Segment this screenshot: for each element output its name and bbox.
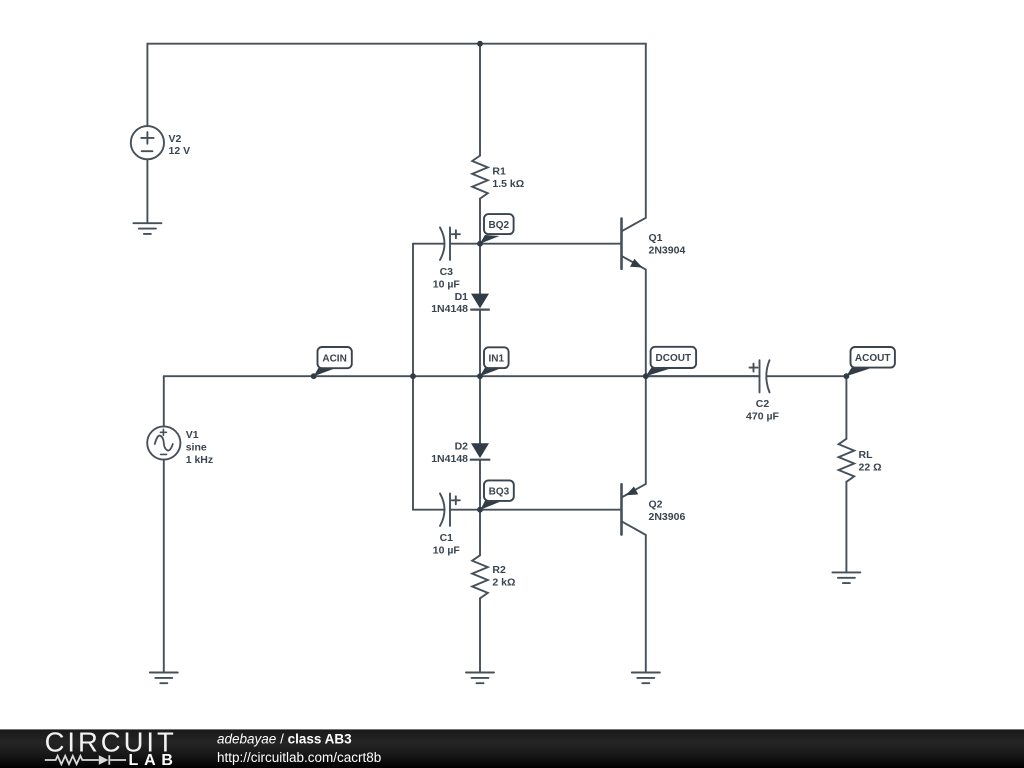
wire D2 cathode to BQ3 (479, 460, 481, 510)
resistor R2 (472, 555, 488, 598)
wire C3 left lead (413, 243, 444, 245)
svg-text:ACIN: ACIN (322, 353, 346, 364)
Q2 collector (622, 521, 646, 672)
node BQ3 (480, 501, 500, 510)
capacitor C1 (440, 494, 450, 526)
junction dot ACIN (311, 373, 317, 379)
wire R2 to ground (479, 598, 481, 672)
diode D2 (471, 443, 489, 458)
wire V2 to rail (146, 44, 148, 127)
resistor R1 (472, 156, 488, 199)
svg-text:2 kΩ: 2 kΩ (492, 576, 515, 588)
ground R2 (466, 673, 494, 684)
V1 minus (161, 453, 167, 455)
svg-text:IN1: IN1 (489, 353, 505, 364)
source V1 circle (147, 426, 180, 459)
svg-text:1N4148: 1N4148 (431, 303, 468, 315)
V1 sine wave (155, 436, 173, 451)
wire D1 cathode to IN1 (479, 310, 481, 377)
C3 plus sign (452, 230, 460, 238)
V2 plus (141, 132, 153, 144)
wire D2 anode (479, 376, 481, 443)
svg-text:D1: D1 (455, 291, 469, 303)
wire Q1 base (480, 243, 622, 245)
junction dot BQ3 (477, 507, 483, 513)
D2 cathode bar (470, 459, 491, 461)
svg-text:2N3904: 2N3904 (649, 244, 686, 256)
svg-text:22 Ω: 22 Ω (859, 461, 882, 473)
wire top rail (147, 43, 645, 45)
logo diode triangle (99, 755, 109, 765)
node IN1 (480, 368, 500, 377)
svg-text:Q2: Q2 (649, 499, 663, 511)
transistor Q1 bar (620, 219, 623, 269)
svg-text:C3: C3 (440, 266, 454, 278)
junction dot bus row (410, 373, 416, 379)
svg-text:BQ2: BQ2 (489, 220, 510, 231)
D1 cathode bar (470, 309, 490, 311)
wire RL top lead (845, 376, 847, 439)
svg-text:ACOUT: ACOUT (855, 353, 891, 364)
V1 plus (160, 429, 166, 435)
junction dot BQ2 (477, 241, 483, 247)
node ACOUT (846, 367, 869, 376)
svg-text:V2: V2 (169, 133, 182, 145)
Q1 emitter arrow (630, 259, 643, 268)
transistor Q2 bar (620, 484, 623, 534)
wire C2 left lead (646, 375, 760, 377)
wire main row left segment (164, 375, 760, 377)
source V2 circle (131, 126, 164, 159)
junction dot DCOUT (643, 373, 649, 379)
wire D1 anode (479, 244, 481, 294)
Q2 emitter arrow (626, 487, 639, 496)
svg-text:10 µF: 10 µF (433, 279, 461, 291)
Q1 emitter (622, 256, 646, 376)
svg-text:http://circuitlab.com/cacrt8b: http://circuitlab.com/cacrt8b (217, 750, 381, 765)
diode D1 (471, 294, 489, 309)
net flags (314, 214, 895, 510)
wire V1 bottom lead (163, 460, 165, 673)
svg-text:sine: sine (186, 441, 207, 453)
wire C1 right lead (450, 509, 480, 511)
svg-text:C1: C1 (440, 532, 454, 544)
resistor RL (839, 439, 855, 482)
svg-text:DCOUT: DCOUT (656, 353, 692, 364)
junction dot IN1 (477, 373, 483, 379)
svg-text:D2: D2 (455, 440, 469, 452)
svg-text:1 kHz: 1 kHz (186, 454, 213, 466)
wire V2 to ground (146, 159, 148, 223)
wire main row right segment (767, 375, 847, 377)
node BQ2 (480, 235, 500, 244)
wire R1 to BQ2 (479, 199, 481, 244)
node DCOUT (646, 367, 670, 376)
V2 minus (142, 150, 153, 152)
svg-text:BQ3: BQ3 (489, 486, 510, 497)
wire RL to ground (845, 482, 847, 573)
svg-text:R1: R1 (492, 166, 506, 178)
svg-text:Q1: Q1 (649, 232, 663, 244)
svg-text:R2: R2 (492, 564, 506, 576)
wire V1 top lead (163, 376, 165, 426)
wire C3 right lead (450, 243, 480, 245)
wire Q2 base (480, 509, 622, 511)
svg-text:1N4148: 1N4148 (431, 453, 468, 465)
ground RL (832, 572, 860, 583)
svg-text:C2: C2 (756, 398, 770, 410)
ground V2 (133, 223, 161, 234)
wire left vertical bus (412, 244, 414, 510)
Q2 emitter (622, 376, 646, 497)
svg-text:1.5 kΩ: 1.5 kΩ (492, 178, 524, 190)
svg-text:12 V: 12 V (169, 145, 191, 157)
svg-text:adebayae / class AB3: adebayae / class AB3 (217, 731, 352, 746)
C2 plus sign (750, 364, 758, 372)
ground V1 (150, 673, 178, 684)
svg-text:LAB: LAB (129, 752, 179, 768)
ground Q2 (632, 673, 660, 684)
wire C1 left lead (413, 509, 444, 511)
footer bar (0, 726, 1024, 768)
capacitor C3 (440, 228, 450, 260)
Q1 collector (622, 44, 646, 232)
wire R2 upper lead (479, 510, 481, 556)
junction dot top rail (477, 41, 483, 47)
capacitor C2 (760, 360, 770, 392)
svg-text:V1: V1 (186, 429, 199, 441)
C1 plus sign (452, 496, 460, 504)
wire R1 branch upper (479, 44, 481, 156)
svg-text:RL: RL (859, 449, 874, 461)
svg-text:470 µF: 470 µF (746, 411, 779, 423)
node ACIN (314, 367, 335, 376)
svg-text:2N3906: 2N3906 (649, 511, 686, 523)
svg-text:10 µF: 10 µF (433, 545, 461, 557)
logo resistor-diode squiggle (45, 755, 126, 765)
junction dot ACOUT (844, 373, 850, 379)
